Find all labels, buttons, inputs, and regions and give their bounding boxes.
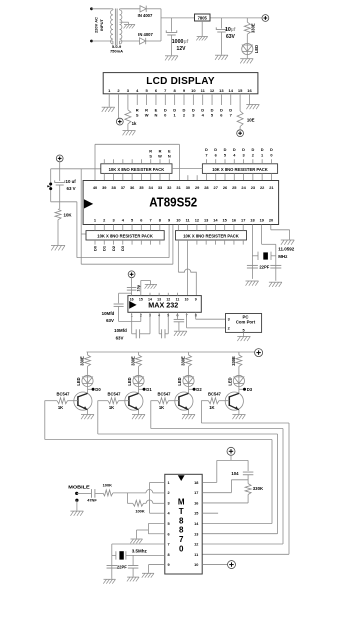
svg-text:7: 7 xyxy=(149,218,151,223)
resistor R15 330K xyxy=(202,484,251,503)
svg-text:22PF: 22PF xyxy=(259,264,269,269)
svg-text:LED: LED xyxy=(76,377,81,385)
capacitor C10 (pins4-5) xyxy=(159,312,168,338)
svg-text:100K: 100K xyxy=(135,508,144,513)
svg-text:INPUT: INPUT xyxy=(99,18,104,31)
svg-text:D: D xyxy=(233,147,236,152)
label LED (D4) xyxy=(76,377,81,385)
node label D1 xyxy=(139,387,153,392)
wire Q1 base to MT8870 pin 14 xyxy=(45,401,272,524)
wire reset node horizontal xyxy=(51,201,77,203)
crystal X2 3.5Mhz xyxy=(112,551,165,559)
label BC547 (Q1) xyxy=(57,391,71,396)
svg-text:BC547: BC547 xyxy=(108,391,122,396)
label IN 4007 (D2) xyxy=(138,32,153,37)
svg-text:10Mfd: 10Mfd xyxy=(102,311,115,316)
ground (7805) xyxy=(196,37,207,41)
wire Q4 base to MT8870 pin 11 xyxy=(201,401,289,555)
svg-text:LCD DISPLAY: LCD DISPLAY xyxy=(146,76,215,87)
capacitor C6 22PF (pin19) xyxy=(270,265,281,268)
capacitor C14 22PF (right) xyxy=(128,555,139,576)
svg-text:13: 13 xyxy=(194,532,198,536)
microcontroller U1 AT89S52 xyxy=(83,181,279,225)
decoder U4 MT8870 xyxy=(165,474,202,574)
label 330E (R1) xyxy=(251,23,256,33)
label 10Mfd 63V (C8) xyxy=(102,311,115,323)
power +5V (MT8870) xyxy=(227,447,235,455)
svg-text:µf: µf xyxy=(231,27,236,33)
label 1K (R12) xyxy=(209,405,214,410)
capacitor C2 10uf xyxy=(216,18,227,55)
wire pin30 stub xyxy=(187,175,189,180)
capacitor C9 10Mfd (pins1-3) xyxy=(132,312,150,338)
svg-text:7: 7 xyxy=(168,543,170,547)
svg-text:11: 11 xyxy=(194,553,198,557)
label 22PF xyxy=(259,264,269,269)
U3 top pin numbers 16-9 xyxy=(130,298,197,302)
transistor Q4 BC547 xyxy=(225,389,243,414)
svg-text:3: 3 xyxy=(168,501,170,505)
wire pin18 VCC xyxy=(202,460,248,482)
wire pin10 to +5V xyxy=(202,564,227,566)
resistor pack RP4 10K X 8NO xyxy=(176,231,247,240)
svg-text:LED: LED xyxy=(254,45,259,53)
wire VCC rail to EA pin31 xyxy=(95,144,179,180)
capacitor C8 10Mfd (V+) xyxy=(114,293,141,321)
svg-text:104: 104 xyxy=(231,471,239,476)
svg-text:9: 9 xyxy=(195,298,197,302)
label LED (D3) xyxy=(254,45,259,53)
transformer T1 xyxy=(110,9,122,46)
svg-text:63V: 63V xyxy=(116,335,124,340)
capacitor C12 47NF xyxy=(77,489,103,498)
ground (MAX232 pin15) xyxy=(145,284,157,288)
ground (C13) xyxy=(103,579,115,583)
wire Q2 base to MT8870 pin 13 xyxy=(98,401,278,534)
wire +5V stem (MT8870) xyxy=(230,455,232,460)
ground (reset 10K) xyxy=(51,245,65,250)
RP1 pin stubs xyxy=(104,159,169,180)
svg-text:37: 37 xyxy=(121,185,125,190)
svg-text:BC547: BC547 xyxy=(57,391,71,396)
ground (Q1 emitter) xyxy=(81,415,94,420)
svg-text:17: 17 xyxy=(241,218,245,223)
ground (LCD pin3) xyxy=(123,131,136,136)
svg-text:63 V: 63 V xyxy=(67,186,76,191)
RP4 pin stubs xyxy=(178,225,243,245)
resistor R5 330E xyxy=(85,352,91,374)
power +5V (LED rail) xyxy=(255,349,263,357)
wire 7805 ground pin xyxy=(201,21,203,36)
label BC547 (Q4) xyxy=(208,391,222,396)
wire secondary top tap xyxy=(120,8,140,10)
svg-text:12V: 12V xyxy=(177,46,187,52)
wire +5V to VCC rail xyxy=(59,162,61,169)
ground (MAX232 pin6) xyxy=(174,331,187,336)
power +5V supply (top right) xyxy=(262,15,269,22)
node labels D7-D0 (pins 28-21) xyxy=(205,147,273,157)
svg-text:63V: 63V xyxy=(226,34,236,40)
svg-text:16: 16 xyxy=(247,88,252,93)
svg-text:10: 10 xyxy=(185,298,189,302)
svg-text:14: 14 xyxy=(148,298,152,302)
U1 top pin numbers 40-21 xyxy=(93,185,275,190)
transistor Q3 BC547 xyxy=(175,389,193,414)
ground (MT8870 pin5-6) xyxy=(130,539,142,543)
label LED (D5) xyxy=(127,377,132,385)
svg-text:8: 8 xyxy=(179,526,184,535)
capacitor C13 22PF (left) xyxy=(107,566,118,569)
svg-text:11: 11 xyxy=(176,298,180,302)
RP3 pin stubs xyxy=(95,225,160,245)
svg-text:D3: D3 xyxy=(247,387,253,392)
ground (MT8870 pin9) xyxy=(142,573,154,577)
svg-text:9: 9 xyxy=(168,563,170,567)
wire pin10 RXD to MAX232 xyxy=(178,240,196,296)
wire +5V riser to resistor packs xyxy=(80,169,82,264)
svg-text:1000: 1000 xyxy=(172,39,184,45)
svg-text:10Mfd: 10Mfd xyxy=(114,328,127,333)
svg-text:D: D xyxy=(224,147,227,152)
U1 bottom pin numbers 1-20 xyxy=(94,218,273,223)
LCD display module xyxy=(103,73,258,94)
power +5V (LCD pin15) xyxy=(237,130,244,137)
svg-text:3: 3 xyxy=(228,318,230,322)
svg-text:20: 20 xyxy=(269,218,273,223)
wire VCC pin40 riser xyxy=(94,144,96,180)
svg-text:BC547: BC547 xyxy=(208,391,222,396)
svg-text:2: 2 xyxy=(228,327,230,331)
svg-text:27: 27 xyxy=(214,185,218,190)
svg-text:220V AC: 220V AC xyxy=(94,17,99,33)
diode D2 IN4007 xyxy=(140,38,162,44)
resistor R7 330E xyxy=(186,352,192,374)
wire VCC branch down-left xyxy=(50,169,52,202)
U1 pin-1 marker xyxy=(84,199,93,208)
ground (C14) xyxy=(127,577,139,581)
svg-text:D2: D2 xyxy=(111,245,116,251)
svg-text:15: 15 xyxy=(238,88,243,93)
capacitor C15 104 xyxy=(243,460,254,483)
svg-text:18: 18 xyxy=(194,481,198,485)
label MOBILE xyxy=(68,484,90,489)
svg-text:1k: 1k xyxy=(132,121,137,126)
svg-text:0: 0 xyxy=(179,545,184,554)
svg-text:6: 6 xyxy=(168,532,170,536)
wire LED supply rail xyxy=(87,351,255,353)
label PC Com Port xyxy=(236,314,256,324)
resistor R6 330E xyxy=(136,352,142,374)
svg-text:15: 15 xyxy=(194,512,198,516)
label LED (D6) xyxy=(177,377,182,385)
svg-text:13: 13 xyxy=(157,298,161,302)
ground (transformer center tap) xyxy=(124,25,135,29)
svg-text:IN 4007: IN 4007 xyxy=(138,13,153,18)
wire reset to RST pin (vertical) xyxy=(76,202,78,258)
connector J1 PC Com Port xyxy=(226,314,262,333)
node label D2 xyxy=(189,387,203,392)
svg-text:D1: D1 xyxy=(102,245,107,251)
svg-text:1K: 1K xyxy=(159,405,164,410)
svg-text:W: W xyxy=(158,154,162,159)
diode D1 IN4007 xyxy=(140,6,161,12)
LED D7 xyxy=(233,374,244,389)
wire pin29 stub xyxy=(196,175,198,180)
wire AC input to transformer primary xyxy=(92,9,111,41)
ground (C1) xyxy=(165,56,178,61)
svg-text:8: 8 xyxy=(179,516,184,525)
svg-text:D: D xyxy=(270,147,273,152)
wire LCD pin1 to ground xyxy=(108,105,110,107)
svg-text:MOBILE: MOBILE xyxy=(68,484,90,489)
ground (LED) xyxy=(240,59,253,64)
node labels RS RW EN (pins 34-32) xyxy=(149,149,171,159)
node label D0 xyxy=(88,387,102,392)
AC input terminal dots xyxy=(90,7,93,42)
svg-text:100K: 100K xyxy=(103,483,112,488)
svg-text:1K: 1K xyxy=(209,405,214,410)
svg-text:T: T xyxy=(179,507,184,516)
wire RP1 to RP2 common xyxy=(172,168,202,170)
wire pin5/6 to ground xyxy=(137,530,149,539)
resistor R9 1K (base) xyxy=(57,398,78,404)
svg-text:S: S xyxy=(149,154,152,159)
label 1K (R9) xyxy=(58,405,63,410)
svg-text:LED: LED xyxy=(227,377,232,385)
label 47NF (C12) xyxy=(87,498,97,503)
svg-text:W: W xyxy=(145,113,149,118)
svg-text:Com Port: Com Port xyxy=(236,320,256,325)
wire input to pin2 (hop over link) xyxy=(113,490,165,493)
svg-text:47NF: 47NF xyxy=(87,498,97,503)
resistor R8 330E xyxy=(236,352,242,374)
label 1K (R11) xyxy=(159,405,164,410)
label 330K (R15) xyxy=(253,486,264,491)
svg-text:D3: D3 xyxy=(120,245,125,251)
wire net B horizontal xyxy=(81,225,173,265)
U4 pin-1 marker xyxy=(178,475,185,481)
label 1000uf 12V xyxy=(172,39,189,52)
svg-text:16: 16 xyxy=(194,501,198,505)
label 330E (R6) xyxy=(131,356,136,366)
wire RST net to pin 9 xyxy=(77,225,169,258)
wire pin15 stub xyxy=(202,512,218,514)
resistor pack RP2 10K X 8NO xyxy=(202,164,277,174)
transistor Q1 BC547 xyxy=(74,389,92,414)
label 100K (R14) xyxy=(135,508,144,513)
svg-text:D2: D2 xyxy=(196,387,202,392)
label MAX 232 xyxy=(148,301,178,310)
svg-text:D: D xyxy=(214,147,217,152)
label 104 (C15) xyxy=(231,471,239,476)
svg-text:2: 2 xyxy=(168,491,170,495)
label 5-0-9 750mA xyxy=(110,44,123,54)
U3 pin-1 marker xyxy=(129,301,136,309)
node labels D0-D7 (LCD pins 7-14) xyxy=(164,108,233,118)
svg-text:10 uf: 10 uf xyxy=(66,179,77,184)
reset junction dots xyxy=(47,183,52,191)
node labels RS RW EN (LCD pins 4-6) xyxy=(136,108,158,118)
ground (pin20) xyxy=(281,240,295,245)
svg-text:8: 8 xyxy=(168,553,170,557)
svg-text:30: 30 xyxy=(186,185,190,190)
label AT89S52 xyxy=(149,195,197,209)
U4 right pin numbers 18-10 xyxy=(194,481,199,567)
svg-text:10: 10 xyxy=(194,563,198,567)
svg-text:7805: 7805 xyxy=(198,15,208,20)
svg-text:330E: 330E xyxy=(131,356,136,366)
capacitor C4 10uf (reset) xyxy=(55,169,65,209)
svg-text:7: 7 xyxy=(179,535,184,544)
U3 top pin stubs xyxy=(150,293,177,296)
wire pin8 to PC port xyxy=(196,312,226,319)
MOBILE terminal dots xyxy=(75,492,78,502)
svg-text:15: 15 xyxy=(139,298,143,302)
svg-text:5: 5 xyxy=(242,328,244,332)
svg-text:M: M xyxy=(178,498,185,507)
svg-text:PC: PC xyxy=(243,314,249,319)
label 10Mfd 63V (C9) xyxy=(114,328,127,340)
resistor R12 1K (base) xyxy=(208,398,229,404)
label BC547 (Q2) xyxy=(108,391,122,396)
svg-text:D1: D1 xyxy=(146,387,152,392)
svg-text:63V: 63V xyxy=(106,318,114,323)
label MT8870 xyxy=(178,498,185,554)
ground (J1 pin5) xyxy=(237,336,250,341)
resistor R13 100K (input) xyxy=(103,490,113,496)
svg-text:10K: 10K xyxy=(64,212,73,217)
power +5V (reset circuit) xyxy=(56,155,63,162)
svg-text:330K: 330K xyxy=(253,486,264,491)
node label D3 xyxy=(239,387,253,392)
label 10K (R4) xyxy=(64,212,73,217)
wire +5V to pin16 with capacitor C7 10u xyxy=(127,278,137,296)
ground (C5) xyxy=(246,281,259,286)
svg-text:10K X 8NO RESISTER PACK: 10K X 8NO RESISTER PACK xyxy=(212,167,268,172)
ground (Q4 emitter) xyxy=(232,415,245,420)
label 11.0592 MHz xyxy=(278,246,295,259)
wire DC rail xyxy=(161,17,262,19)
svg-text:330E: 330E xyxy=(251,23,256,33)
wire LCD pin2 to +5V xyxy=(118,105,120,118)
svg-text:10: 10 xyxy=(191,88,196,93)
svg-text:N: N xyxy=(168,154,171,159)
resistor R10 1K (base) xyxy=(108,398,129,404)
U4 left pin numbers 1-9 xyxy=(168,481,171,567)
wire secondary bottom tap xyxy=(120,40,139,42)
resistor R4 10K (reset) xyxy=(55,209,61,245)
label LED (D7) xyxy=(227,377,232,385)
svg-text:LED: LED xyxy=(177,377,182,385)
label 330E (R5) xyxy=(80,356,85,366)
svg-text:LED: LED xyxy=(127,377,132,385)
wire pin7 to PC port xyxy=(187,312,226,328)
wire secondary center tap xyxy=(120,22,128,24)
capacitor C11 (pin6 to ground) xyxy=(174,312,185,331)
label 100K (R13) xyxy=(103,483,112,488)
svg-text:D: D xyxy=(205,147,208,152)
svg-text:10µ: 10µ xyxy=(136,285,140,291)
wire MOBILE lower to ground xyxy=(76,500,78,511)
resistor pack RP3 10K X 8NO xyxy=(86,231,164,240)
svg-text:D0: D0 xyxy=(92,246,97,251)
svg-text:D: D xyxy=(251,147,254,152)
svg-text:330E: 330E xyxy=(181,356,186,366)
power +5V (LCD pin2) xyxy=(116,118,123,125)
svg-text:1K: 1K xyxy=(58,405,63,410)
wire junction to pin17 ESt xyxy=(202,480,248,493)
svg-text:12: 12 xyxy=(166,298,170,302)
svg-text:1K: 1K xyxy=(109,405,114,410)
power +5V (MAX232) xyxy=(128,271,135,278)
svg-text:330E: 330E xyxy=(80,356,85,366)
J1 pin numbers xyxy=(228,318,245,333)
LED D3 power indicator xyxy=(242,34,253,58)
resistor R2 1k (LCD contrast) xyxy=(125,105,131,130)
svg-text:12: 12 xyxy=(194,543,198,547)
ground (LCD pin16) xyxy=(246,105,259,110)
wire Q3 base to MT8870 pin 12 xyxy=(151,401,283,545)
ground (Q3 emitter) xyxy=(182,415,195,420)
svg-text:22PF: 22PF xyxy=(117,565,127,570)
resistor R11 1K (base) xyxy=(158,398,179,404)
wire rectifier junction xyxy=(160,9,162,41)
crystal X1 11.0592MHz xyxy=(252,252,275,260)
resistor pack RP1 10K X 8NO xyxy=(101,164,172,174)
node labels D0-D3 (pins 1-4) xyxy=(92,245,125,251)
label 22PF (MT8870) xyxy=(117,565,127,570)
label 1K (R10) xyxy=(109,405,114,410)
label 10uf 63V xyxy=(225,27,236,40)
svg-text:13: 13 xyxy=(219,88,224,93)
ground (C6) xyxy=(269,282,282,287)
wire pin5-pin6 link xyxy=(148,523,164,533)
svg-text:10E: 10E xyxy=(247,117,255,122)
label 10 uf 63 V (C4) xyxy=(66,179,77,191)
svg-text:330E: 330E xyxy=(231,356,236,366)
svg-text:BC547: BC547 xyxy=(158,391,172,396)
svg-text:11.0592: 11.0592 xyxy=(278,246,295,251)
wire +5V to bottom-left resistor pack xyxy=(81,233,86,235)
transistor Q2 BC547 xyxy=(125,389,143,414)
svg-text:IN 4007: IN 4007 xyxy=(138,32,153,37)
svg-text:5: 5 xyxy=(168,522,170,526)
svg-text:7: 7 xyxy=(205,152,207,157)
svg-text:MAX 232: MAX 232 xyxy=(148,301,178,310)
wire J1 pin5 to ground xyxy=(243,332,245,336)
label IN 4007 (D1) xyxy=(138,13,153,18)
ground (Q2 emitter) xyxy=(132,415,145,420)
svg-text:D: D xyxy=(261,147,264,152)
wire pin7 OSC1 xyxy=(112,544,165,579)
label LCD DISPLAY xyxy=(146,76,215,87)
resistor R1 330E xyxy=(244,18,250,34)
resistor R3 10E (LCD backlight) xyxy=(237,105,243,129)
label 3.5Mhz (X2) xyxy=(132,549,148,554)
svg-text:N: N xyxy=(155,113,158,118)
svg-text:40: 40 xyxy=(93,185,97,190)
svg-text:3.5Mhz: 3.5Mhz xyxy=(132,549,148,554)
label 330E (R8) xyxy=(231,356,236,366)
svg-text:µf: µf xyxy=(184,39,189,45)
svg-text:D0: D0 xyxy=(95,387,101,392)
svg-text:16: 16 xyxy=(130,298,134,302)
ground (MOBILE) xyxy=(70,511,83,516)
svg-text:10K X 8NO RESISTER PACK: 10K X 8NO RESISTER PACK xyxy=(109,167,165,172)
LED D4 xyxy=(82,374,93,389)
ground (LCD pin1) xyxy=(102,107,115,112)
wire pin19 XTAL1 down xyxy=(262,225,276,281)
